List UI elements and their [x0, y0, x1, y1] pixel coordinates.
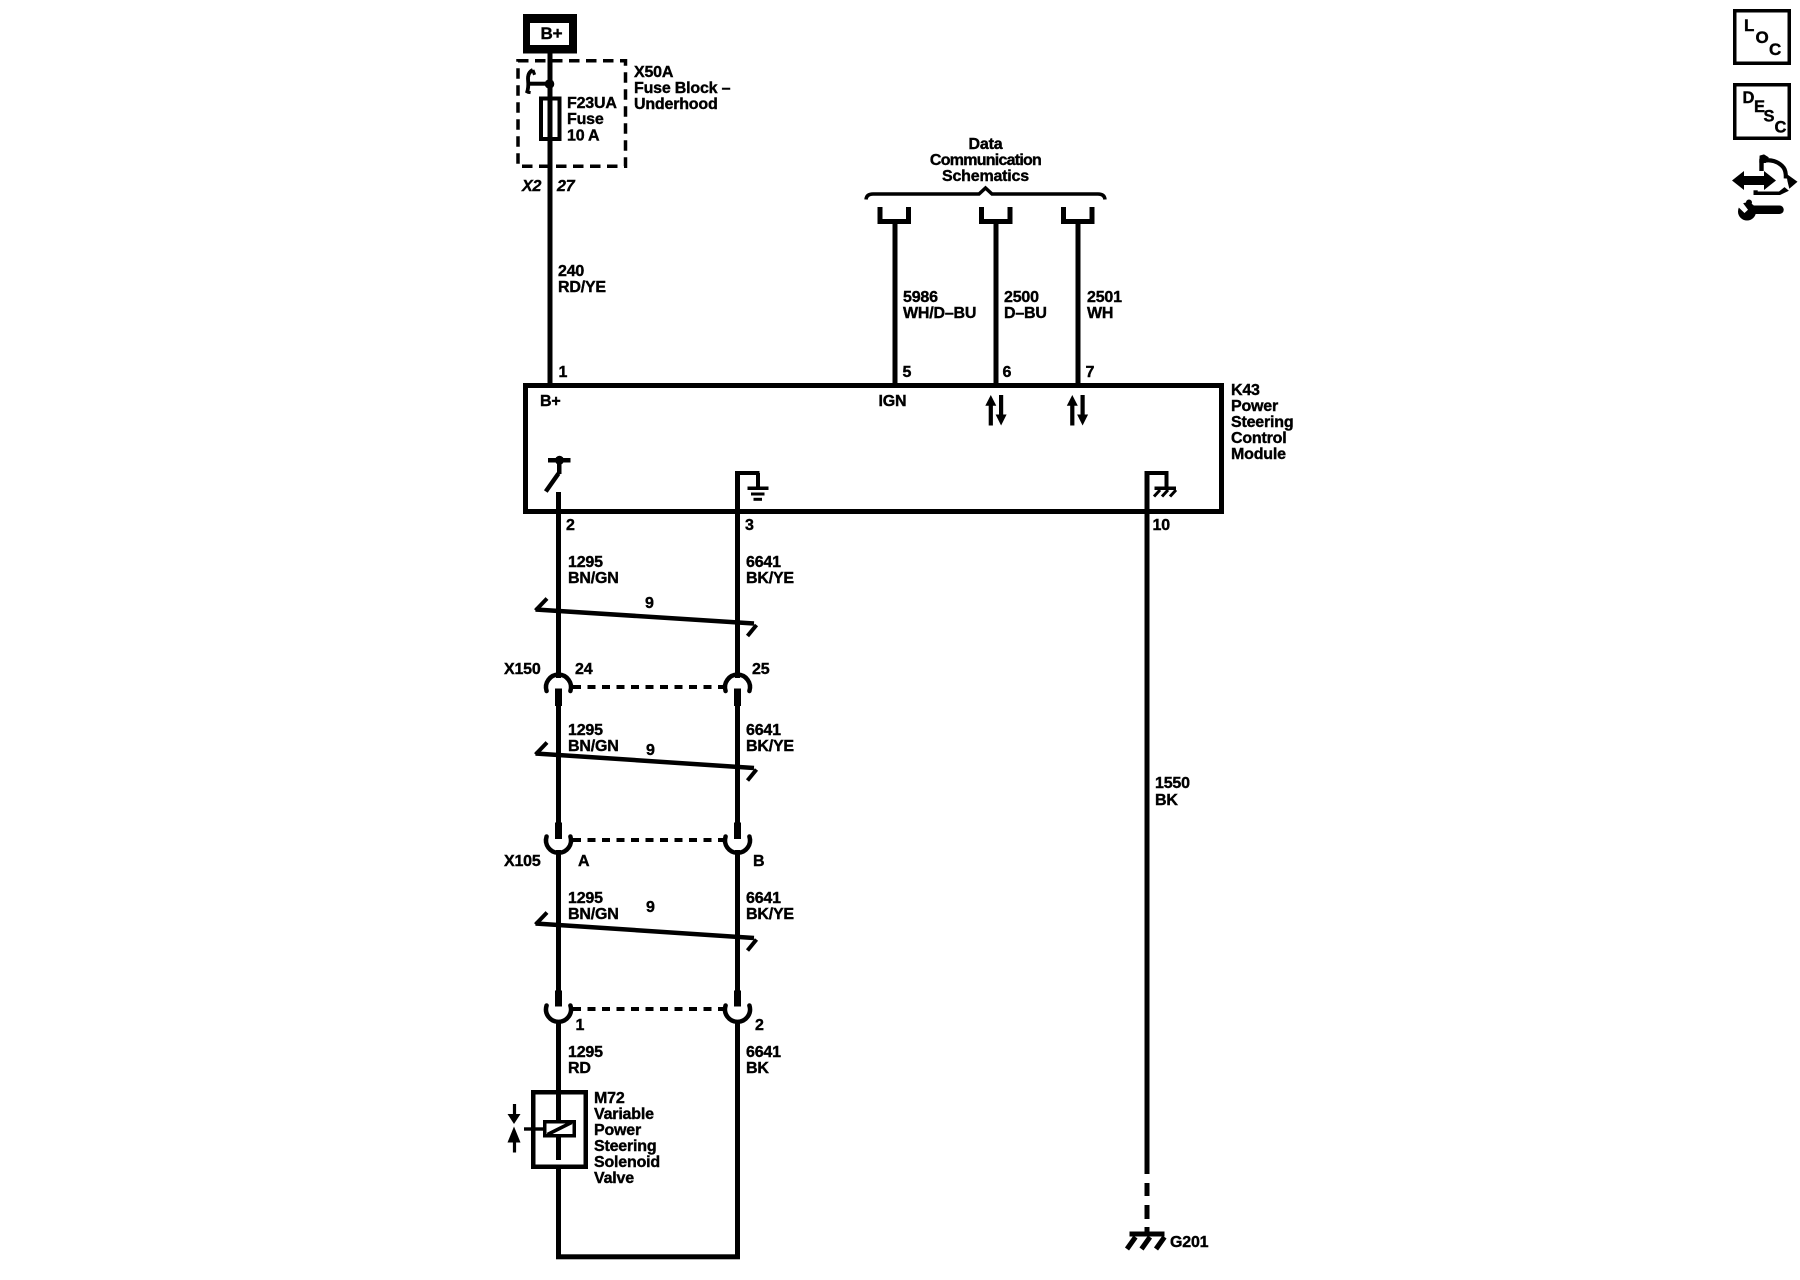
- svg-text:Steering: Steering: [1231, 414, 1293, 431]
- svg-text:K43: K43: [1231, 382, 1260, 399]
- svg-text:1: 1: [576, 1017, 585, 1034]
- svg-text:C: C: [1775, 119, 1787, 137]
- svg-text:Control: Control: [1231, 430, 1286, 447]
- svg-text:2: 2: [755, 1017, 764, 1034]
- svg-text:A: A: [578, 853, 590, 870]
- svg-text:C: C: [1769, 40, 1781, 59]
- svg-text:X2: X2: [521, 178, 541, 195]
- svg-text:B: B: [753, 853, 764, 870]
- svg-text:6: 6: [1003, 364, 1012, 381]
- svg-text:2500: 2500: [1004, 289, 1039, 306]
- svg-text:WH: WH: [1087, 305, 1113, 322]
- svg-text:1295: 1295: [568, 722, 603, 739]
- svg-text:5986: 5986: [903, 289, 938, 306]
- svg-text:BK/YE: BK/YE: [746, 570, 794, 587]
- svg-text:G201: G201: [1170, 1234, 1209, 1251]
- svg-text:3: 3: [745, 517, 754, 534]
- svg-text:6641: 6641: [746, 890, 781, 907]
- svg-text:24: 24: [575, 661, 593, 678]
- svg-text:IGN: IGN: [879, 393, 907, 410]
- svg-text:L: L: [1744, 16, 1754, 35]
- svg-text:6641: 6641: [746, 554, 781, 571]
- svg-text:6641: 6641: [746, 722, 781, 739]
- svg-text:10 A: 10 A: [567, 128, 600, 145]
- svg-text:240: 240: [558, 263, 584, 280]
- svg-text:Schematics: Schematics: [942, 168, 1029, 185]
- svg-text:Fuse Block –: Fuse Block –: [634, 80, 731, 97]
- svg-text:2: 2: [566, 517, 575, 534]
- svg-text:X105: X105: [504, 853, 541, 870]
- svg-text:BN/GN: BN/GN: [568, 570, 619, 587]
- svg-text:B+: B+: [541, 24, 563, 43]
- svg-text:B+: B+: [540, 393, 561, 410]
- svg-text:RD: RD: [568, 1060, 591, 1077]
- svg-text:Power: Power: [1231, 398, 1278, 415]
- svg-text:9: 9: [645, 595, 654, 612]
- svg-text:2501: 2501: [1087, 289, 1122, 306]
- svg-text:1295: 1295: [568, 890, 603, 907]
- svg-text:6641: 6641: [746, 1044, 781, 1061]
- svg-text:D: D: [1743, 89, 1755, 107]
- svg-text:10: 10: [1153, 517, 1171, 534]
- svg-text:M72: M72: [594, 1090, 625, 1107]
- svg-text:BK/YE: BK/YE: [746, 738, 794, 755]
- svg-text:Module: Module: [1231, 446, 1286, 463]
- svg-text:RD/YE: RD/YE: [558, 279, 606, 296]
- svg-text:5: 5: [903, 364, 912, 381]
- svg-text:D–BU: D–BU: [1004, 305, 1047, 322]
- svg-text:9: 9: [646, 899, 655, 916]
- svg-text:1550: 1550: [1155, 775, 1190, 792]
- svg-text:BK: BK: [1155, 792, 1178, 809]
- svg-text:Communication: Communication: [930, 152, 1041, 169]
- svg-text:BN/GN: BN/GN: [568, 906, 619, 923]
- svg-text:S: S: [1764, 107, 1775, 125]
- svg-text:WH/D–BU: WH/D–BU: [903, 305, 976, 322]
- svg-text:O: O: [1756, 28, 1769, 47]
- svg-text:1295: 1295: [568, 1044, 603, 1061]
- svg-text:Variable: Variable: [594, 1106, 654, 1123]
- svg-text:Underhood: Underhood: [634, 96, 718, 113]
- svg-text:Data: Data: [969, 136, 1003, 153]
- svg-text:Valve: Valve: [594, 1170, 634, 1187]
- svg-text:F23UA: F23UA: [567, 95, 617, 112]
- svg-text:Steering: Steering: [594, 1138, 656, 1155]
- svg-text:Power: Power: [594, 1122, 641, 1139]
- svg-text:X50A: X50A: [634, 64, 674, 81]
- svg-text:1: 1: [559, 364, 568, 381]
- svg-text:25: 25: [752, 661, 770, 678]
- svg-text:Solenoid: Solenoid: [594, 1154, 660, 1171]
- svg-text:7: 7: [1086, 364, 1095, 381]
- svg-text:27: 27: [556, 178, 576, 195]
- svg-text:Fuse: Fuse: [567, 111, 604, 128]
- svg-text:X150: X150: [504, 661, 541, 678]
- svg-text:9: 9: [646, 742, 655, 759]
- svg-text:BN/GN: BN/GN: [568, 738, 619, 755]
- svg-text:1295: 1295: [568, 554, 603, 571]
- svg-text:BK: BK: [746, 1060, 769, 1077]
- svg-text:BK/YE: BK/YE: [746, 906, 794, 923]
